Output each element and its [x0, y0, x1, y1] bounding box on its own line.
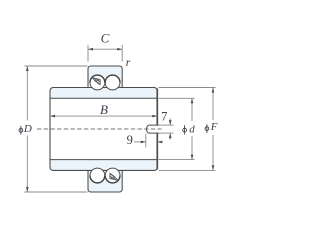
svg-text:9: 9 — [127, 133, 133, 147]
svg-text:F: F — [210, 121, 218, 133]
svg-text:r: r — [126, 57, 131, 69]
svg-text:B: B — [100, 102, 108, 117]
svg-text:7: 7 — [161, 110, 167, 124]
svg-text:C: C — [101, 30, 110, 45]
svg-text:D: D — [23, 123, 32, 135]
svg-text:d: d — [189, 123, 195, 135]
